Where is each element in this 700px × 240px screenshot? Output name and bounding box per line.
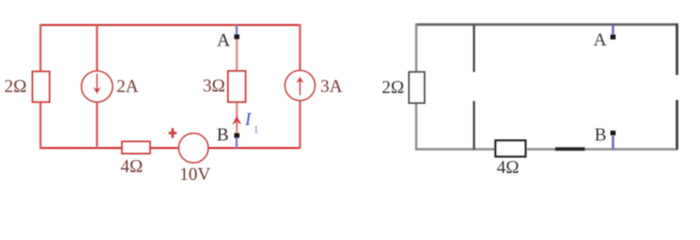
svg-text:10V: 10V <box>180 164 211 184</box>
svg-text:2A: 2A <box>117 76 139 96</box>
svg-text:B: B <box>217 125 229 145</box>
svg-text:4Ω: 4Ω <box>497 157 519 177</box>
svg-text:A: A <box>217 30 230 50</box>
svg-text:B: B <box>594 125 606 145</box>
svg-text:4Ω: 4Ω <box>121 156 143 176</box>
svg-text:A: A <box>594 30 607 50</box>
svg-text:3A: 3A <box>320 76 342 96</box>
svg-text:2Ω: 2Ω <box>4 76 26 96</box>
svg-text:1: 1 <box>254 125 259 136</box>
svg-text:3Ω: 3Ω <box>203 76 225 96</box>
svg-text:2Ω: 2Ω <box>382 77 404 97</box>
svg-text:I: I <box>244 109 252 129</box>
